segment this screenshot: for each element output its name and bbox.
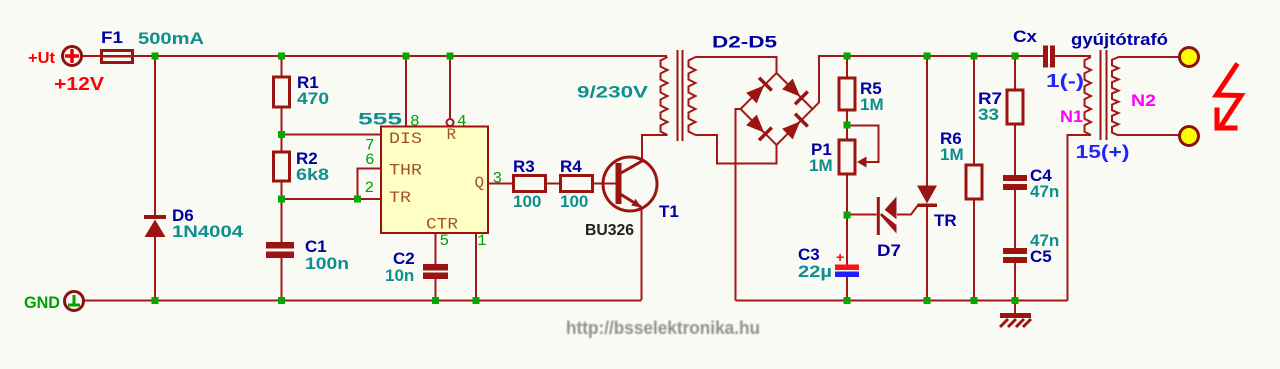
- wire R7 C4 C5 branch: [1014, 56, 1016, 313]
- svg-text:http://bsselektronika.hu: http://bsselektronika.hu: [566, 318, 760, 338]
- svg-text:3: 3: [493, 170, 503, 188]
- node 15(+) label: [1076, 142, 1130, 162]
- svg-text:6: 6: [365, 151, 375, 169]
- pin 3 Q label: [475, 170, 503, 193]
- svg-text:500mA: 500mA: [138, 29, 204, 48]
- diode D5 bottom-right: [781, 113, 809, 141]
- svg-text:gyújtótrafó: gyújtótrafó: [1071, 30, 1168, 49]
- svg-text:470: 470: [297, 89, 329, 108]
- capacitor C5 47n: [1003, 231, 1059, 266]
- wire THR pin6: [358, 169, 382, 200]
- ignition transformer N2 winding: [1112, 57, 1156, 135]
- ignition transformer core: [1101, 50, 1107, 140]
- svg-text:10n: 10n: [385, 266, 414, 285]
- svg-text:33: 33: [978, 105, 999, 124]
- svg-text:R4: R4: [560, 157, 582, 176]
- svg-text:T1: T1: [659, 202, 679, 221]
- resistor R4 100: [560, 157, 593, 211]
- wire N2 bottom to terminal: [1119, 134, 1181, 136]
- svg-text:BU326: BU326: [585, 222, 634, 239]
- svg-text:R: R: [447, 126, 457, 144]
- diode D6 1N4004: [144, 206, 244, 241]
- transformer TR1 core: [678, 50, 683, 141]
- svg-text:DIS: DIS: [389, 130, 422, 148]
- svg-text:1M: 1M: [809, 156, 833, 175]
- svg-text:1(-): 1(-): [1046, 71, 1084, 91]
- terminal +Ut: [63, 47, 82, 66]
- resistor R1 470: [274, 73, 330, 108]
- svg-text:C5: C5: [1030, 247, 1052, 266]
- wire DIS pin7: [282, 134, 382, 136]
- wire pin5 to C2: [435, 233, 437, 300]
- svg-text:1N4004: 1N4004: [172, 222, 244, 241]
- diode D3 top-right: [781, 78, 809, 106]
- wire N1 bottom return: [1068, 135, 1092, 301]
- svg-text:THR: THR: [389, 162, 422, 180]
- node +12V label: [54, 74, 104, 94]
- wire GND bus right: [736, 300, 1068, 302]
- capacitor C4 47n: [1003, 166, 1059, 201]
- capacitor C3 22u electrolytic: [798, 245, 859, 281]
- svg-text:+12V: +12V: [54, 74, 104, 94]
- svg-text:100: 100: [513, 192, 541, 211]
- svg-text:F1: F1: [101, 28, 123, 47]
- svg-text:N1: N1: [1060, 107, 1083, 126]
- terminal HT top: [1180, 48, 1199, 67]
- svg-text:TR: TR: [389, 189, 411, 207]
- wire GND bus left: [83, 300, 642, 302]
- potentiometer P1 1M: [809, 140, 867, 175]
- ignition transformer label: [1071, 30, 1168, 49]
- svg-text:15(+): 15(+): [1076, 142, 1130, 162]
- pin 8 label: [410, 113, 420, 131]
- svg-text:+Ut: +Ut: [28, 50, 56, 67]
- svg-text:CTR: CTR: [426, 216, 458, 234]
- wire T1 emitter down: [641, 207, 643, 300]
- pin 5 CTR label: [426, 216, 458, 251]
- svg-text:TR: TR: [934, 211, 957, 230]
- node junctions top rail: [152, 53, 1019, 60]
- svg-text:4: 4: [457, 113, 467, 131]
- svg-text:47n: 47n: [1030, 182, 1059, 201]
- ground symbol: [1000, 313, 1031, 327]
- capacitor C1 100n: [266, 237, 349, 273]
- wire R5 P1 C3 branch: [846, 56, 848, 301]
- svg-text:5: 5: [440, 232, 450, 250]
- wire pin8: [405, 56, 407, 127]
- spark lightning bolt: [1215, 64, 1242, 130]
- transistor T1 BU326: [585, 157, 679, 239]
- node +Ut label: [28, 50, 56, 67]
- svg-text:1: 1: [477, 232, 487, 250]
- svg-text:R3: R3: [513, 157, 535, 176]
- capacitor Cx: [1013, 27, 1055, 68]
- wire P1 wiper feedback: [847, 126, 879, 163]
- wire pin4 reset: [449, 56, 451, 119]
- node 1(-) label: [1046, 71, 1084, 91]
- svg-text:Cx: Cx: [1013, 27, 1038, 46]
- svg-text:1M: 1M: [940, 145, 964, 164]
- wire R1 R2 C1 branch: [281, 56, 283, 300]
- wire bridge plus to DC rail: [813, 56, 1044, 109]
- svg-text:9/230V: 9/230V: [577, 83, 649, 102]
- wire secondary top to bridge: [696, 57, 777, 73]
- svg-text:2: 2: [365, 179, 375, 197]
- resistor R2 6k8: [274, 149, 330, 184]
- diode D2 top-left: [745, 77, 773, 105]
- terminal HT bottom: [1180, 127, 1199, 146]
- wire Q output to R3 R4 base: [488, 183, 604, 185]
- wire pin1: [475, 233, 477, 300]
- wire D7 to gate: [847, 205, 919, 215]
- ignition transformer N1 winding: [1060, 57, 1091, 135]
- capacitor C2 10n: [385, 249, 448, 285]
- pin 7 DIS label: [365, 130, 422, 155]
- node junctions middle: [278, 122, 851, 219]
- diode bridge D2-D5 outline: [712, 33, 813, 146]
- watermark: [566, 318, 762, 340]
- svg-text:GND: GND: [24, 293, 60, 312]
- wire TR anode cathode: [926, 56, 928, 301]
- svg-text:+: +: [836, 249, 844, 265]
- wire D6 branch: [154, 56, 156, 300]
- wire bridge minus down: [736, 109, 741, 301]
- svg-text:D2-D5: D2-D5: [712, 33, 777, 52]
- wire secondary bottom to bridge: [696, 135, 777, 164]
- wire Cx to N1: [1055, 55, 1091, 57]
- fuse F1 500mA: [101, 28, 204, 63]
- svg-text:100n: 100n: [305, 254, 349, 273]
- wire TR pin2: [282, 198, 382, 200]
- wire T1 collector to primary: [642, 135, 668, 161]
- svg-text:100: 100: [560, 192, 588, 211]
- thyristor TR: [917, 186, 957, 231]
- pin 6 THR label: [365, 151, 422, 180]
- diac D7: [877, 197, 901, 261]
- terminal GND: [24, 292, 84, 313]
- svg-text:6k8: 6k8: [296, 165, 329, 184]
- svg-text:N2: N2: [1131, 91, 1156, 110]
- pin 2 TR label: [365, 179, 412, 207]
- pin 4 bubble and label: [447, 113, 467, 145]
- transformer TR1 secondary: [689, 57, 696, 135]
- pin 1 label: [477, 232, 487, 250]
- node junctions bottom bus: [152, 297, 1019, 304]
- svg-text:Q: Q: [475, 174, 485, 192]
- svg-text:D7: D7: [877, 241, 901, 260]
- wire +12V top rail: [82, 55, 667, 57]
- wire N2 top to terminal: [1119, 56, 1181, 58]
- wire R6 branch: [973, 56, 975, 301]
- svg-text:22µ: 22µ: [798, 262, 832, 281]
- resistor R7 33: [978, 89, 1023, 124]
- svg-text:1M: 1M: [860, 95, 884, 114]
- svg-text:555: 555: [358, 110, 402, 129]
- resistor R6 1M: [940, 129, 982, 199]
- resistor R3 100: [513, 157, 546, 211]
- transformer TR1 primary 9/230V: [577, 57, 668, 135]
- diode D4 bottom-left: [745, 114, 773, 142]
- svg-text:8: 8: [410, 113, 420, 131]
- op-amp U1 555 timer box: [358, 110, 488, 234]
- resistor R5 1M: [839, 78, 884, 114]
